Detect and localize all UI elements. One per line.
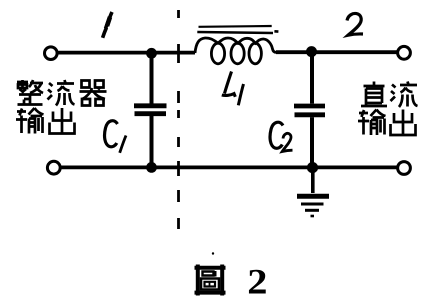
annotation left: 整流器 [17, 80, 107, 106]
capacitor C2 plate top [294, 104, 325, 109]
capacitor C1 plate bottom [135, 111, 167, 116]
junction dot node B (top of C2) [306, 46, 317, 57]
annotation right: 输出 [358, 110, 416, 136]
annotation left: 输出 [16, 108, 75, 134]
speck above caption [212, 252, 214, 254]
terminal input bottom-left [47, 161, 60, 174]
inductor L1 loop 2 [231, 43, 244, 64]
junction dot bottom of C2 (ground node) [307, 162, 318, 173]
annotation right: 直流 [361, 82, 418, 108]
terminal output top-right [398, 46, 411, 59]
inductor L1 coil [195, 38, 276, 53]
wire C1 branch lower [150, 116, 154, 168]
inductor L1 core line end dash [274, 30, 278, 33]
inductor L1 loop 3 [249, 43, 261, 64]
terminal output bottom-right [398, 162, 411, 175]
wire bottom rail [61, 165, 398, 169]
ground symbol [297, 196, 329, 216]
capacitor C1 plate top [134, 103, 167, 108]
svg-text:2: 2 [247, 263, 267, 302]
inductor L1 loop 1 [211, 43, 224, 64]
capacitor C2 label [270, 122, 292, 151]
caption figure label 圖 [195, 252, 226, 295]
wire top rail right segment [276, 50, 398, 54]
junction dot node A (top of C1) [146, 48, 157, 59]
terminal input top-left [45, 47, 58, 60]
capacitor C1 label [105, 121, 126, 153]
dashed separator line [177, 10, 180, 229]
capacitor C2 plate bottom [295, 112, 326, 117]
wire top rail left segment [58, 51, 196, 55]
inductor L1 core line upper [199, 25, 272, 28]
inductor L1 core line lower [197, 32, 273, 33]
wire C1 branch upper [150, 53, 154, 104]
inductor L1 label [222, 72, 244, 106]
wire C2 branch lower [310, 117, 314, 167]
wire C2 branch upper [310, 52, 314, 104]
node 1 label [103, 12, 112, 38]
node 2 label [347, 13, 363, 35]
junction dot bottom of C1 [146, 162, 157, 173]
wire ground stem [311, 168, 315, 193]
